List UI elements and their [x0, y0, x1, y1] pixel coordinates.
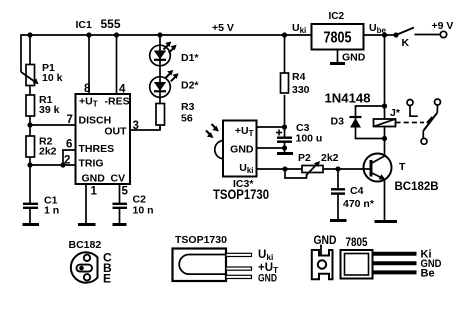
value R1 39 k [39, 94, 60, 116]
svg-text:100 u: 100 u [296, 133, 323, 145]
svg-text:56: 56 [181, 113, 193, 125]
wire pin 5 to C2 [119, 184, 121, 203]
svg-text:THRES: THRES [79, 143, 115, 155]
net label Ube [369, 22, 386, 35]
label GND tab 7805 pinout [314, 235, 337, 247]
value D2* [181, 80, 199, 92]
TSOP1730 lead 2 [226, 267, 252, 270]
resistor R4 [281, 73, 289, 93]
svg-text:7805: 7805 [324, 30, 352, 47]
pin number 5 [122, 186, 129, 198]
wire pin 1 to ground [85, 184, 87, 224]
value TSOP1730 [213, 187, 269, 202]
label BC182 pinout title [69, 239, 102, 251]
svg-text:Be: Be [421, 268, 435, 280]
7805 tab hole [318, 260, 326, 268]
wire GND tab stub [320, 245, 322, 258]
value C3 100 u [296, 122, 323, 145]
svg-text:2k2: 2k2 [39, 146, 57, 158]
label D3 [331, 116, 345, 128]
wire 7805 output to switch [364, 34, 397, 36]
7805 body inner [345, 254, 369, 276]
label GND 7805 [342, 52, 366, 64]
pin number 6 [66, 139, 72, 151]
svg-text:1: 1 [91, 186, 98, 198]
C3 plus sign [276, 130, 282, 136]
label J* [390, 107, 401, 119]
diode D3 [350, 117, 362, 128]
resistor R2 [26, 136, 35, 157]
LED D1 [150, 42, 177, 66]
resistor R1 [26, 95, 35, 116]
svg-text:GND: GND [258, 273, 277, 285]
wire pin2 TRIG [30, 164, 76, 166]
7805 heatsink tab [312, 250, 333, 279]
node base/C4 junction [335, 166, 340, 171]
svg-text:1 n: 1 n [44, 205, 59, 217]
wire P2 wiper link [285, 169, 307, 178]
svg-text:1N4148: 1N4148 [325, 91, 371, 106]
relay coil J* [374, 119, 396, 127]
TSOP1730 lead 3 [226, 275, 252, 278]
wire relay actuator dashed [396, 122, 425, 124]
wire OUT pin3 [130, 125, 160, 130]
wire switch to +9V [415, 34, 441, 36]
svg-text:470 n*: 470 n* [343, 198, 375, 210]
svg-text:+9 V: +9 V [432, 20, 454, 32]
svg-text:+5 V: +5 V [212, 22, 234, 34]
svg-text:Ube: Ube [369, 22, 386, 35]
capacitor C2 [113, 204, 128, 208]
svg-text:TSOP1730: TSOP1730 [213, 187, 269, 202]
relay contact common [421, 131, 427, 145]
svg-text:4: 4 [119, 84, 126, 96]
wire collector riser [384, 35, 386, 156]
value BC182B [395, 181, 439, 193]
svg-text:10 n: 10 n [133, 205, 154, 217]
label T [399, 161, 406, 173]
wire pin 8 riser [88, 35, 90, 94]
node +9V terminal [440, 31, 446, 37]
switch K blade [396, 28, 414, 36]
label K [402, 37, 410, 49]
svg-text:10 k: 10 k [42, 72, 63, 84]
pin number 8 [84, 83, 91, 95]
wire emitter to ground [384, 179, 386, 221]
TSOP1730 package outline [173, 249, 227, 282]
svg-text:D1*: D1* [181, 52, 199, 64]
LED D2 [150, 70, 179, 97]
7805 lead Ki [373, 252, 417, 256]
TSOP1730 lead 1 [226, 253, 252, 256]
value D1* [181, 52, 199, 64]
value C1 1 n [44, 195, 59, 217]
ground C1 [23, 223, 40, 226]
wire Uki riser to R4 [284, 35, 286, 73]
wire LED branch riser [159, 35, 161, 130]
node pin6/pin2 junction [60, 162, 65, 167]
node Uki/P2 wiper junction [282, 166, 287, 171]
label IC3* [233, 178, 254, 190]
svg-text:OUT: OUT [104, 126, 127, 138]
ground C3 [277, 152, 293, 155]
svg-text:R4: R4 [292, 71, 306, 83]
wire C4 to ground [337, 194, 339, 220]
capacitor C3 [277, 138, 292, 142]
svg-text:Uki: Uki [292, 22, 306, 35]
transistor Q1 BC182B [364, 154, 392, 182]
svg-text:K: K [402, 37, 410, 49]
7805 pin labels Ki GND Be [421, 249, 442, 280]
svg-text:39 k: 39 k [39, 104, 60, 116]
wire 7805 GND [337, 50, 339, 64]
svg-text:GND: GND [314, 235, 337, 247]
IC3 incoming IR arrows [206, 124, 219, 138]
label 7805 pinout title [346, 237, 369, 249]
net label +9 V [432, 20, 454, 32]
svg-text:CV: CV [111, 173, 126, 185]
node R1/R2 junction [27, 122, 32, 127]
svg-text:-RES: -RES [105, 96, 130, 108]
ground C4 [330, 219, 347, 222]
svg-text:330: 330 [292, 84, 310, 96]
pin number 3 [133, 120, 139, 132]
node D3/relay top junction [382, 103, 387, 108]
wire P1 top [29, 35, 31, 65]
BC182 pin E dot [84, 274, 90, 280]
transistor BC182 package outline [71, 252, 98, 282]
resistor R3 [156, 104, 165, 126]
value C2 10 n [133, 194, 154, 217]
svg-text:E: E [103, 272, 111, 286]
ground C2 [113, 223, 127, 226]
7805 lead Be [373, 270, 417, 274]
wire R2 to C1 [29, 157, 31, 203]
TSOP1730 lens bullet [179, 255, 226, 275]
wire C1 to ground [29, 208, 31, 224]
svg-text:IC2: IC2 [329, 11, 345, 22]
op-amp U3 regulator IC2 7805 body [312, 24, 364, 50]
wire pin7 DISCH [30, 124, 76, 126]
wire IC3 +UT [257, 126, 285, 128]
label IC2 [329, 11, 345, 22]
ground 555 pin1 [78, 223, 96, 226]
wire R1 to R2 [29, 116, 31, 136]
svg-text:5: 5 [122, 186, 129, 198]
value C4 470 n* [343, 185, 375, 210]
svg-text:555: 555 [101, 17, 121, 31]
node +5V rail junction dots [27, 32, 387, 37]
svg-text:BC182B: BC182B [395, 181, 439, 193]
BC182 pin C dot [84, 255, 90, 261]
svg-text:C4: C4 [350, 185, 364, 197]
IC3 pin labels [230, 125, 254, 175]
TSOP1730 pin labels [258, 249, 279, 285]
wire IC3 GND [257, 147, 285, 149]
relay contact blade [423, 113, 437, 131]
capacitor C4 [331, 189, 345, 193]
wire P2 to base [323, 168, 371, 170]
7805 body outline [341, 250, 373, 279]
label TSOP1730 pinout title [175, 234, 227, 246]
svg-text:7805: 7805 [346, 237, 369, 249]
wire P1 to R1 [29, 86, 31, 96]
value P2 2k2 [298, 152, 339, 164]
wire pin6 THRES link [63, 150, 76, 165]
svg-text:GND: GND [230, 144, 254, 156]
svg-text:D3: D3 [331, 116, 345, 128]
net label +5 V [212, 22, 234, 34]
svg-text:BC182: BC182 [69, 239, 102, 251]
svg-text:2k2: 2k2 [321, 152, 339, 164]
IC3 sensor dome [215, 141, 223, 159]
BC182 pin B slot [77, 265, 93, 272]
node R2/TRIG junction [27, 162, 32, 167]
value P1 10 k [42, 62, 63, 84]
svg-text:J*: J* [390, 107, 401, 119]
value R4 330 [292, 71, 310, 96]
wire IC3 Uki [257, 168, 303, 170]
op-amp U1 555 timer IC1 body [76, 94, 131, 184]
label IC1 [76, 19, 93, 31]
pin labels inside 555 [79, 96, 130, 185]
op-amp U2 IR receiver IC3 body [223, 121, 257, 177]
svg-text:R3: R3 [181, 101, 195, 113]
svg-text:TRIG: TRIG [79, 158, 104, 170]
wire pin 4 riser [116, 35, 118, 94]
value R3 56 [181, 101, 195, 125]
potentiometer P1 [21, 65, 39, 86]
wire C4 top [337, 169, 339, 189]
wire +5V rail [21, 35, 312, 72]
wire C2 to ground [119, 208, 121, 224]
node D3/relay bottom junction [382, 136, 387, 141]
value 1N4148 [325, 91, 371, 106]
7805 lead GND [373, 261, 417, 265]
pin number 4 [119, 84, 126, 96]
wire R4 to C3 [284, 95, 286, 138]
svg-text:8: 8 [84, 83, 91, 95]
net label Uki [292, 22, 306, 35]
svg-text:7: 7 [67, 114, 73, 126]
svg-text:6: 6 [66, 139, 72, 151]
node +UT/R4/C3 junction [282, 124, 287, 129]
svg-text:T: T [399, 161, 406, 173]
potentiometer P2 [302, 161, 323, 175]
node GND/C3 junction [282, 145, 287, 150]
pin number 1 [91, 186, 98, 198]
ground emitter [375, 220, 398, 223]
svg-text:GND: GND [342, 52, 366, 64]
relay contact terminal A [407, 100, 418, 117]
svg-text:TSOP1730: TSOP1730 [175, 234, 227, 246]
svg-text:2: 2 [64, 155, 70, 167]
svg-text:IC1: IC1 [76, 19, 93, 31]
capacitor C1 [23, 204, 38, 208]
value 7805 [324, 30, 352, 47]
svg-text:D2*: D2* [181, 80, 199, 92]
svg-text:GND: GND [82, 173, 106, 185]
value 555 [101, 17, 121, 31]
pin number 2 [64, 155, 70, 167]
relay contact terminal B [435, 99, 441, 113]
wire D3 loop [356, 106, 385, 139]
node switch terminal [393, 32, 398, 37]
svg-text:Uki: Uki [258, 249, 273, 262]
ground 7805 [330, 62, 345, 65]
wire C3 to ground [284, 142, 286, 153]
value R2 2k2 [39, 136, 57, 158]
svg-text:P2: P2 [298, 152, 311, 164]
pin number 7 [67, 114, 73, 126]
BC182 pin labels C B E [103, 251, 112, 286]
